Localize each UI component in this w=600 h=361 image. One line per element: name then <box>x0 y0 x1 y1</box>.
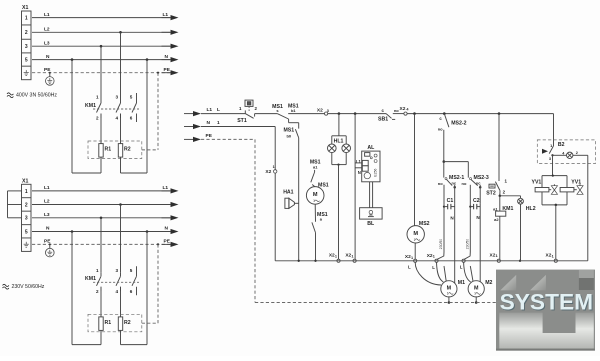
svg-text:C2: C2 <box>473 198 480 204</box>
svg-text:M: M <box>313 192 318 198</box>
wire HL2 branch <box>500 195 521 197</box>
svg-text:YV1: YV1 <box>532 180 542 186</box>
wire KM1 pole3 to R2 <box>120 287 122 317</box>
svg-text:AL: AL <box>367 145 375 151</box>
wire N <box>32 231 170 233</box>
resistor R1 <box>99 144 103 158</box>
svg-text:1: 1 <box>496 254 498 258</box>
svg-text:X1: X1 <box>22 178 28 184</box>
svg-text:2: 2 <box>96 289 99 294</box>
svg-text:BL: BL <box>367 221 375 227</box>
PE wire (dashed) <box>201 138 255 140</box>
svg-text:230V 50/60Hz: 230V 50/60Hz <box>12 284 45 290</box>
wire R1 return <box>100 157 102 173</box>
wire B2 to solenoid valves <box>552 155 554 175</box>
wire AL feed down <box>354 114 356 260</box>
svg-text:L: L <box>460 265 463 270</box>
wire M1 left throw to terminal <box>437 252 444 259</box>
earth symbol on PE <box>49 72 51 74</box>
resistor R2 <box>118 144 122 158</box>
svg-text:L1: L1 <box>207 107 213 113</box>
svg-text:3: 3 <box>25 216 28 222</box>
svg-text:2: 2 <box>576 151 578 155</box>
junction MS2 motor feed <box>413 112 416 115</box>
svg-text:L: L <box>432 265 435 270</box>
svg-text:no: no <box>394 108 399 113</box>
svg-text:MS1: MS1 <box>317 212 328 218</box>
svg-text:5: 5 <box>130 268 133 273</box>
svg-text:1: 1 <box>96 268 99 273</box>
arrow L3 <box>162 217 172 219</box>
wire M2 left throw to terminal <box>464 252 470 259</box>
svg-text:X2: X2 <box>265 169 271 175</box>
svg-text:R1: R1 <box>105 320 112 326</box>
svg-text:1: 1 <box>433 255 435 259</box>
svg-text:3: 3 <box>116 95 119 100</box>
svg-text:L: L <box>217 107 220 113</box>
arrow N <box>162 231 172 233</box>
AL internal parts <box>364 172 370 178</box>
wire 230/50 into M2 <box>470 266 473 281</box>
svg-text:MS2-2: MS2-2 <box>451 120 466 126</box>
svg-text:6: 6 <box>130 289 133 294</box>
wire L1 <box>32 17 170 19</box>
svg-text:3: 3 <box>549 157 551 161</box>
svg-text:X2: X2 <box>317 107 323 113</box>
svg-text:nc: nc <box>476 180 481 185</box>
level probe BL <box>360 208 383 219</box>
arrow L2 <box>162 204 172 206</box>
M2 chassis to PE <box>475 297 477 303</box>
wire from L3 to KM1 pole 1 <box>100 45 103 48</box>
svg-text:ST1: ST1 <box>237 118 247 124</box>
arrow PE <box>162 243 172 245</box>
junction HL1 <box>338 112 341 115</box>
junction HL2 <box>499 195 502 198</box>
wire X2:4 to MS2 junction <box>407 113 553 115</box>
wire N <box>32 59 170 61</box>
svg-text:1: 1 <box>313 199 315 203</box>
wire valves to terminal <box>555 205 557 259</box>
svg-text:L1: L1 <box>163 12 169 18</box>
svg-text:nc: nc <box>451 180 456 185</box>
wire from L3 to KM1 pole 1 <box>100 217 103 220</box>
control feed arrow L <box>184 113 194 115</box>
svg-text:4: 4 <box>116 289 119 294</box>
wire N drop left <box>71 230 74 233</box>
wire R1 return <box>100 330 102 344</box>
svg-text:M: M <box>474 286 479 292</box>
wire N to bus <box>274 173 276 261</box>
svg-text:B2: B2 <box>558 142 565 148</box>
wire L1 <box>32 190 170 192</box>
svg-text:N: N <box>46 54 50 60</box>
wires AL to probe BL <box>369 182 371 208</box>
svg-text:3: 3 <box>116 268 119 273</box>
svg-text:1: 1 <box>552 254 554 258</box>
svg-text:M: M <box>447 286 452 292</box>
svg-text:SYSTEM: SYSTEM <box>500 290 593 315</box>
svg-text:5: 5 <box>25 58 28 64</box>
svg-text:MS2: MS2 <box>419 221 430 227</box>
wire L2 <box>32 31 170 33</box>
svg-text:1: 1 <box>273 165 275 169</box>
svg-text:L: L <box>408 265 411 270</box>
wire B2 to bus right end <box>587 155 589 260</box>
svg-text:1: 1 <box>25 189 28 195</box>
wire L3 <box>32 217 170 219</box>
wire HL1 to terminal X2:1 <box>338 165 340 260</box>
wire KM1 pole3 to R2 <box>120 114 122 144</box>
wire N side M2 <box>479 204 481 283</box>
svg-text:L3: L3 <box>44 40 50 46</box>
svg-text:L1: L1 <box>44 12 50 18</box>
heater enclosure (dashed) <box>88 141 142 159</box>
vendor watermark logo <box>496 270 595 351</box>
svg-text:MS1: MS1 <box>283 128 294 134</box>
arrow L3 <box>162 45 172 47</box>
svg-text:230/50: 230/50 <box>439 239 443 249</box>
M1 chassis to PE <box>448 297 450 303</box>
timer selector MS2-1 <box>443 162 445 178</box>
svg-text:KM1: KM1 <box>85 103 96 109</box>
ST1 actuator symbol <box>245 100 253 106</box>
svg-text:4: 4 <box>116 116 119 121</box>
svg-text:6: 6 <box>130 116 133 121</box>
svg-text:b1: b1 <box>291 108 296 113</box>
svg-text:no: no <box>438 126 443 131</box>
wire down to ST2 <box>498 114 500 181</box>
arrow PE <box>162 72 172 74</box>
door switch ST1 <box>244 110 246 113</box>
wire to KM1 coil <box>499 196 501 211</box>
wire L to ST1 <box>201 113 245 115</box>
svg-text:5: 5 <box>130 95 133 100</box>
svg-text:a1: a1 <box>313 165 318 170</box>
svg-text:L2: L2 <box>44 199 50 205</box>
solenoid valve pair feed <box>542 175 567 177</box>
svg-text:KM1: KM1 <box>85 276 96 282</box>
svg-text:HL1: HL1 <box>334 139 344 145</box>
svg-text:X1: X1 <box>22 5 28 11</box>
svg-text:PE: PE <box>164 67 171 73</box>
wire N side M1 <box>454 204 456 283</box>
svg-text:2: 2 <box>96 116 99 121</box>
svg-text:1: 1 <box>411 256 413 260</box>
svg-text:N: N <box>207 120 211 126</box>
svg-text:2: 2 <box>25 30 28 36</box>
control feed arrow PE <box>184 138 194 140</box>
svg-text:no: no <box>462 181 467 186</box>
wire N to control <box>201 126 275 128</box>
svg-text:5: 5 <box>25 229 28 235</box>
svg-text:L1: L1 <box>44 185 50 191</box>
arrow N <box>162 59 172 61</box>
svg-text:L1: L1 <box>163 185 169 191</box>
svg-text:ST2: ST2 <box>486 190 496 196</box>
KM1 linkage (dashed) <box>93 281 139 283</box>
svg-text:N: N <box>165 54 169 60</box>
svg-text:1: 1 <box>474 292 476 296</box>
KM1 linkage (dashed) <box>93 108 139 110</box>
svg-text:X2: X2 <box>400 106 406 112</box>
wire N drop right <box>146 230 149 233</box>
wire into M2 upper-left <box>464 262 471 282</box>
svg-text:HL2: HL2 <box>526 206 536 212</box>
wire into M1 upper-left <box>437 262 444 282</box>
svg-text:no: no <box>438 181 443 186</box>
wire into M1 from X2 left <box>415 262 441 285</box>
wire L3 <box>32 45 170 47</box>
supply label <box>3 284 9 286</box>
svg-text:R2: R2 <box>124 320 131 326</box>
svg-text:1: 1 <box>550 144 552 148</box>
svg-text:1: 1 <box>351 254 353 258</box>
svg-text:M2: M2 <box>485 280 492 286</box>
wire from L2 to KM1 pole 3 <box>119 31 122 34</box>
svg-text:b0: b0 <box>286 134 291 139</box>
wire 230/50 into M1 <box>444 266 446 281</box>
terminal X2 (M2 L) <box>462 259 465 262</box>
wire L2 <box>32 204 170 206</box>
wire L to pressure switch B2 <box>553 114 555 147</box>
svg-text:L2: L2 <box>44 27 50 33</box>
PE to enclosure (dashed) <box>157 243 159 245</box>
earth symbol on PE <box>49 243 51 245</box>
resistor R1 <box>99 317 103 331</box>
heater enclosure (dashed) <box>88 314 142 332</box>
wire N drop left <box>71 58 74 61</box>
N bus <box>275 260 588 262</box>
junction AL feed <box>354 112 357 115</box>
arrow L2 <box>162 31 172 33</box>
wire ST1 to MS1-s <box>255 113 278 115</box>
svg-text:1: 1 <box>25 16 28 22</box>
PE to enclosure (dashed) <box>157 72 159 74</box>
bridge links terminals 1-2-3 <box>8 190 22 192</box>
svg-text:1: 1 <box>96 95 99 100</box>
svg-text:N: N <box>46 226 50 232</box>
svg-text:N: N <box>165 226 169 232</box>
wire from L2 to KM1 pole 3 <box>119 203 122 206</box>
wire R2 return <box>120 157 122 173</box>
supply label <box>7 93 13 95</box>
svg-text:PE: PE <box>164 239 171 245</box>
junction ST2 feed <box>498 112 501 115</box>
svg-text:R2: R2 <box>124 147 131 153</box>
svg-text:3: 3 <box>25 44 28 50</box>
KM1 spare pole 5-6 <box>136 93 138 103</box>
svg-text:E256: E256 <box>373 169 377 177</box>
svg-text:230/50: 230/50 <box>466 239 470 249</box>
pressure switch B2 (dashed box) <box>537 140 595 164</box>
svg-text:1: 1 <box>335 254 337 258</box>
wire KM1 coil to terminal <box>499 216 501 259</box>
wire KM1 pole1 to R1 <box>100 114 102 144</box>
junction MS2-1/MS2-3 split <box>443 160 446 163</box>
svg-text:M: M <box>413 231 418 237</box>
wire HL2 to bus <box>520 204 522 261</box>
wire PE (dashed) <box>32 243 170 245</box>
svg-text:M1: M1 <box>458 280 465 286</box>
svg-text:L3: L3 <box>44 212 50 218</box>
arrow L1 <box>162 190 172 192</box>
svg-text:1: 1 <box>447 292 449 296</box>
wire MS2 motor to terminal <box>414 243 416 259</box>
svg-text:a2: a2 <box>494 217 499 222</box>
wire N drop right <box>146 58 149 61</box>
resistor R2 <box>118 317 122 331</box>
svg-text:1: 1 <box>217 120 220 126</box>
valve return join <box>542 204 567 206</box>
svg-text:PE: PE <box>206 133 213 139</box>
wire branch MS1-b0 down <box>298 123 300 129</box>
wire down to MS2 motor <box>414 114 416 226</box>
svg-text:SB1: SB1 <box>378 117 388 123</box>
wire PE (dashed) <box>32 72 170 74</box>
svg-text:R1: R1 <box>105 147 112 153</box>
svg-text:N: N <box>358 170 361 175</box>
KM1 spare pole 5-6 <box>136 266 138 276</box>
svg-text:1: 1 <box>414 238 416 242</box>
control feed arrow N <box>184 126 194 128</box>
svg-text:C1: C1 <box>447 198 454 204</box>
wire X2:3 to SB1 <box>328 113 386 115</box>
junction MS2-2 <box>443 112 446 115</box>
svg-text:400V 3N 50/60Hz: 400V 3N 50/60Hz <box>16 93 57 99</box>
wire MS1-a to X2 bus <box>315 233 317 261</box>
wire R2 return <box>120 330 122 344</box>
svg-text:2: 2 <box>25 202 28 208</box>
arrow L1 <box>162 17 172 19</box>
svg-text:HA1: HA1 <box>283 190 293 196</box>
wire KM1 pole1 to R1 <box>100 287 102 317</box>
